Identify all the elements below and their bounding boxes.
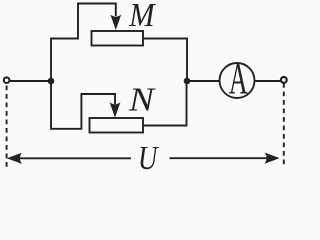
terminal right [281,77,287,83]
svg-text:N: N [128,82,157,119]
node left junction [48,78,55,85]
arrowhead left of U line [7,153,22,164]
wire: M right to right junction [143,39,187,82]
arrowhead right of U line [265,153,280,164]
wire: N right to right junction [143,81,187,126]
slider arrow of N [110,102,121,117]
wire: right junction to ammeter [187,80,220,82]
ammeter A1 [220,63,255,98]
U dimension line right part [170,157,269,159]
slider arrow of M [110,15,121,30]
resistor N body [90,118,144,133]
wire: M branch zigzag to slider [51,4,116,82]
U dimension line left part [17,157,131,159]
dashed drop line left [6,86,8,171]
node right junction [184,78,191,85]
resistor M body [92,31,144,46]
svg-text:M: M [128,0,156,34]
wire: left terminal to left junction [10,80,51,82]
svg-text:A: A [229,54,248,103]
wire: ammeter to right terminal [255,80,281,82]
dashed drop line right [283,83,285,168]
terminal left [4,77,10,83]
svg-text:U: U [138,140,160,175]
wire: N branch zigzag to slider [51,81,115,129]
